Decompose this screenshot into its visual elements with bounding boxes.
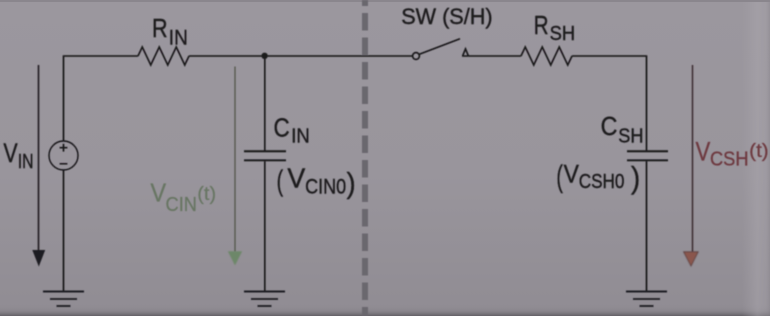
switch fixed contact xyxy=(463,49,469,56)
svg-text:IN: IN xyxy=(291,125,310,147)
capacitor C_SH xyxy=(627,150,668,152)
V_CIN(t) arrowhead xyxy=(228,251,242,265)
svg-text:C: C xyxy=(601,113,618,141)
svg-text:V: V xyxy=(696,136,711,166)
svg-text:): ) xyxy=(347,168,356,200)
svg-text:(: ( xyxy=(556,159,563,194)
ground (CSH) xyxy=(626,292,667,307)
V_IN arrow xyxy=(38,65,40,251)
svg-text:SH: SH xyxy=(618,126,643,148)
ground (CIN) xyxy=(244,292,285,307)
wire: contact to RSH xyxy=(462,55,521,57)
voltage source V_IN xyxy=(49,141,78,170)
svg-text:IN: IN xyxy=(18,151,34,173)
svg-text:CSH0: CSH0 xyxy=(579,171,625,193)
svg-text:(t): (t) xyxy=(749,141,769,162)
svg-text:CIN: CIN xyxy=(166,194,198,216)
ground (source) xyxy=(43,292,84,307)
source polarity - xyxy=(60,163,68,165)
switch SW pivot circle xyxy=(413,53,420,60)
svg-text:C: C xyxy=(274,115,290,143)
resistor R_SH xyxy=(521,47,572,65)
svg-text:SW (S/H): SW (S/H) xyxy=(401,4,492,29)
svg-text:(: ( xyxy=(277,166,284,198)
svg-text:CSH: CSH xyxy=(710,149,749,171)
switch blade xyxy=(419,39,460,54)
svg-text:SH: SH xyxy=(550,23,576,45)
node: junction of RIN/CIN/switch xyxy=(261,53,267,59)
svg-text:V: V xyxy=(150,180,166,208)
V_CIN(t) arrow xyxy=(234,67,236,253)
svg-text:V: V xyxy=(564,160,580,188)
svg-text:V: V xyxy=(287,162,305,193)
svg-text:IN: IN xyxy=(169,27,188,50)
source polarity + xyxy=(60,144,68,152)
svg-text:R: R xyxy=(152,15,168,43)
svg-text:CIN0: CIN0 xyxy=(305,176,346,199)
svg-text:(t): (t) xyxy=(197,184,216,205)
wire: RIN to switch xyxy=(189,55,413,57)
resistor R_IN xyxy=(138,47,189,65)
svg-text:R: R xyxy=(534,12,549,40)
V_CSH(t) arrowhead xyxy=(684,252,699,266)
wire: CSH to ground xyxy=(646,161,648,291)
wire: CIN to ground xyxy=(264,161,266,291)
svg-text:): ) xyxy=(631,160,640,195)
wire: junction down to CIN xyxy=(264,56,266,150)
svg-text:V: V xyxy=(3,138,18,168)
wire: RSH to CSH xyxy=(572,56,647,150)
dashed boundary line xyxy=(362,0,368,316)
V_CSH(t) arrow xyxy=(692,65,694,252)
wire: source top to resistor RIN xyxy=(64,56,139,141)
capacitor C_IN xyxy=(244,150,286,152)
wire: source bottom to ground xyxy=(63,170,65,291)
